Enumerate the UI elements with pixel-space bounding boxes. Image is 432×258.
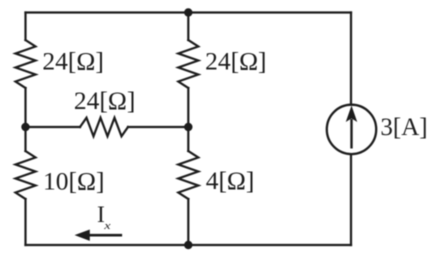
label 24[Ω] middle bbox=[205, 47, 266, 76]
label 4[Ω] bbox=[206, 166, 255, 195]
node bottom bbox=[184, 241, 192, 249]
svg-text:24[Ω]: 24[Ω] bbox=[74, 86, 135, 115]
node A (left middle) bbox=[21, 123, 29, 131]
wire middle lower stub bbox=[187, 199, 189, 245]
resistor 10[Ω] bbox=[16, 151, 36, 199]
label 3[A] bbox=[380, 114, 427, 141]
wire horizontal left segment bbox=[26, 126, 81, 128]
wire right upper bbox=[350, 13, 352, 105]
wire middle node to 4 ohm bbox=[187, 127, 189, 151]
wire left node to 10 ohm bbox=[24, 127, 26, 151]
resistor 24[Ω] left bbox=[16, 40, 36, 88]
wire left lower stub bbox=[24, 199, 26, 245]
svg-text:24[Ω]: 24[Ω] bbox=[205, 47, 266, 76]
wire top (left corner to right corner) bbox=[26, 11, 352, 13]
current source I1 circle bbox=[327, 105, 376, 154]
svg-text:10[Ω]: 10[Ω] bbox=[43, 166, 104, 195]
current direction arrow Ix (pointing left) bbox=[76, 230, 122, 240]
wire bottom bbox=[26, 244, 352, 246]
wire right lower bbox=[350, 155, 352, 245]
resistor 24[Ω] horizontal bbox=[80, 118, 128, 137]
label 24[Ω] left bbox=[42, 47, 103, 76]
wire horizontal right segment bbox=[128, 126, 188, 128]
wire middle mid bbox=[187, 88, 189, 127]
node B (center middle) bbox=[184, 123, 192, 131]
label 24[Ω] horizontal bbox=[74, 86, 135, 115]
node top bbox=[184, 8, 192, 16]
resistor 24[Ω] middle bbox=[178, 40, 198, 88]
wire left mid (below left 24 ohm to node A) bbox=[24, 88, 26, 127]
wire left upper stub bbox=[24, 13, 26, 41]
label Ix current bbox=[97, 202, 111, 232]
current source arrow (up) bbox=[347, 107, 357, 149]
label 10[Ω] bbox=[43, 166, 104, 195]
wire middle upper stub bbox=[187, 13, 189, 41]
svg-text:4[Ω]: 4[Ω] bbox=[206, 166, 255, 195]
resistor 4[Ω] bbox=[178, 151, 198, 199]
svg-text:24[Ω]: 24[Ω] bbox=[42, 47, 103, 76]
svg-text:x: x bbox=[103, 219, 111, 231]
svg-text:3[A]: 3[A] bbox=[380, 114, 427, 141]
